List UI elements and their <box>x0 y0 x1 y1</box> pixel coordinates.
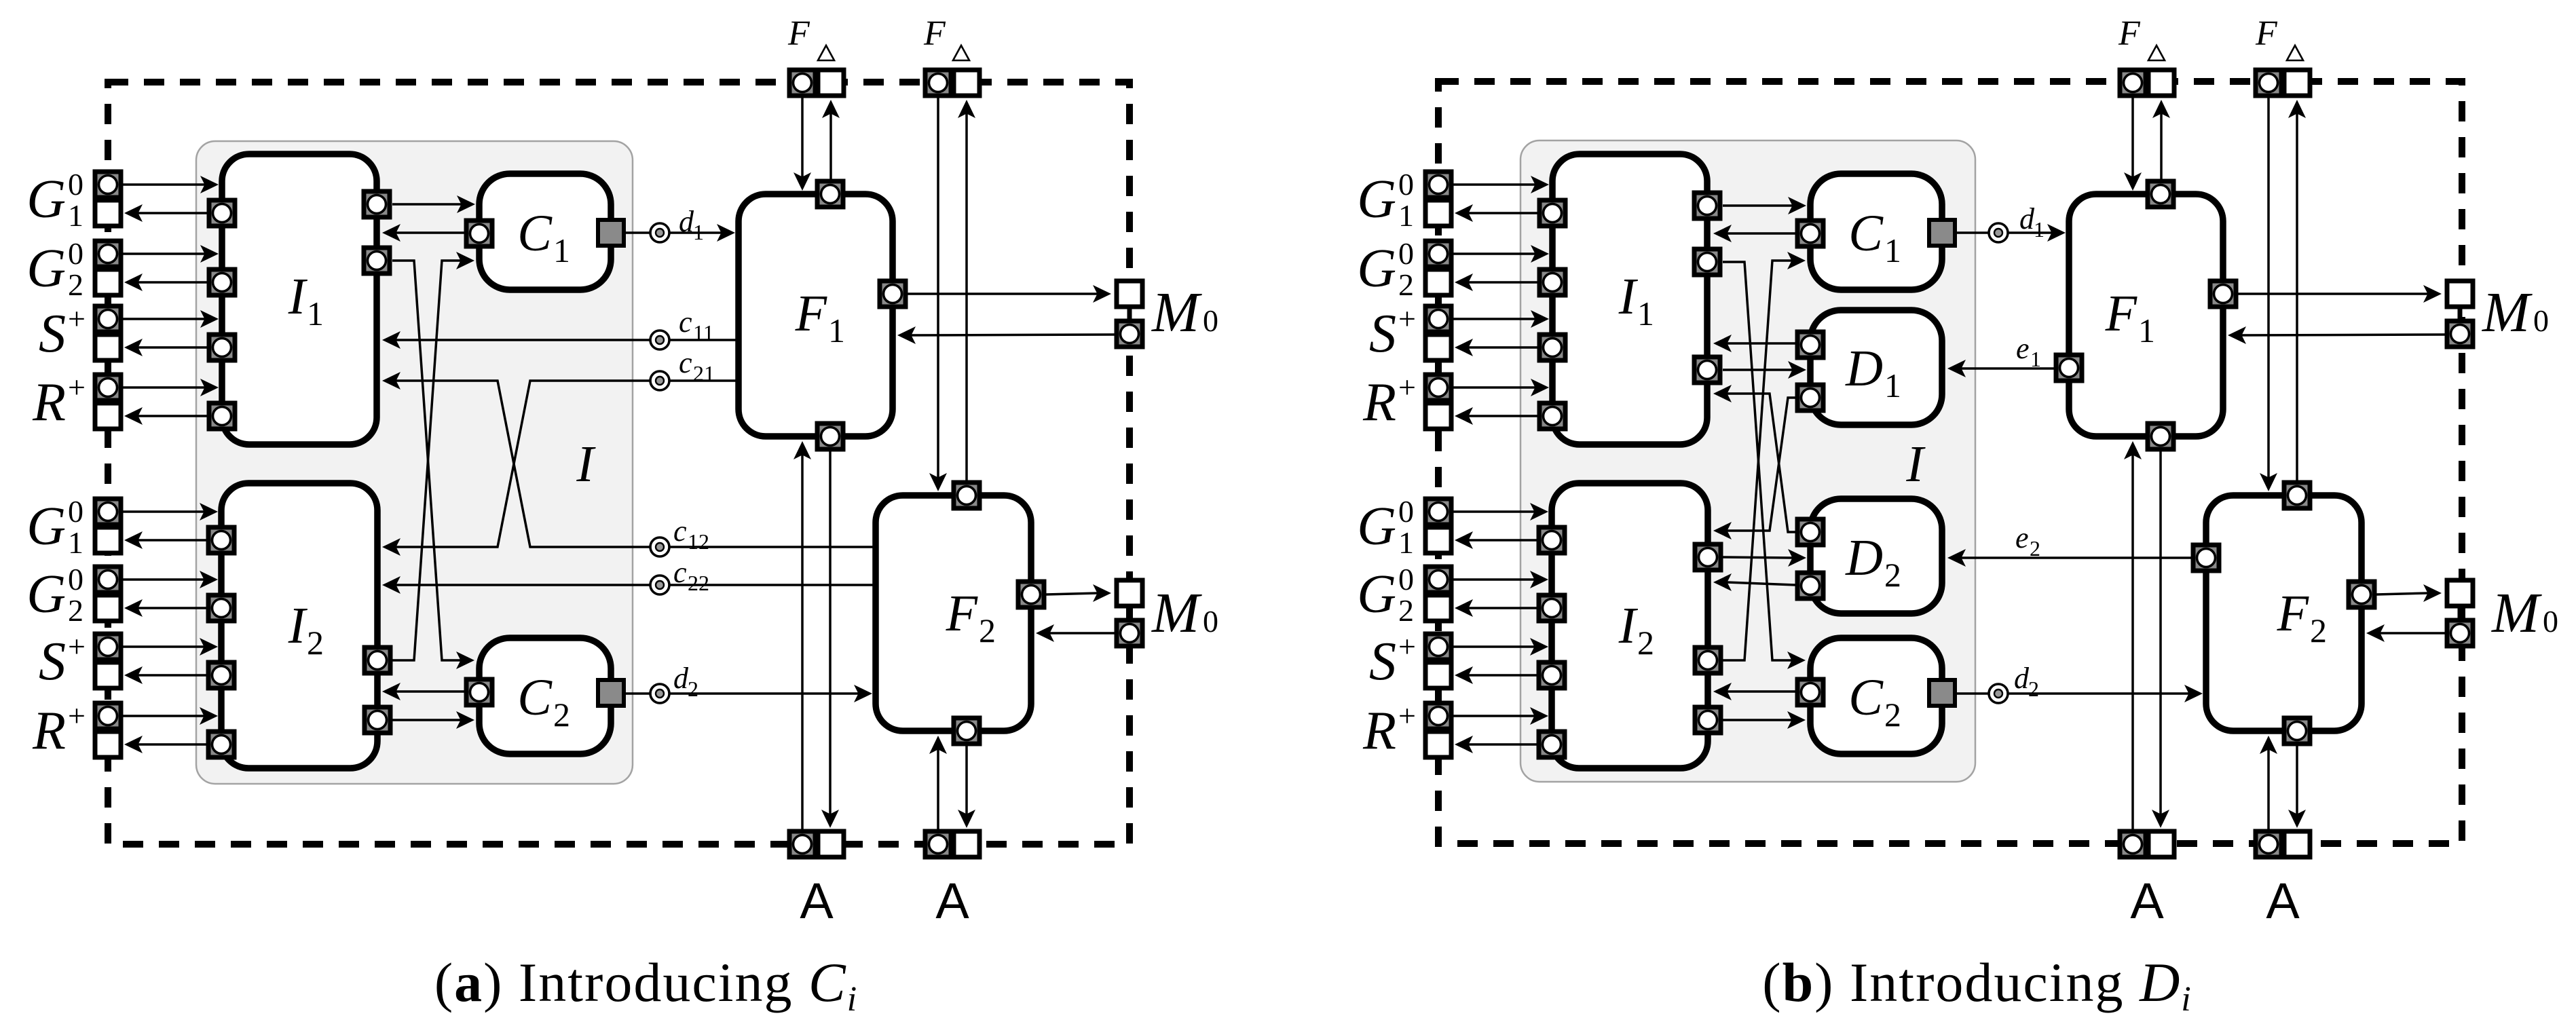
svg-text:11: 11 <box>693 320 714 345</box>
svg-text:1: 1 <box>553 231 570 269</box>
svg-text:2: 2 <box>2030 536 2040 561</box>
svg-text:F: F <box>787 14 810 53</box>
svg-text:d: d <box>2019 202 2035 235</box>
svg-text:M: M <box>2482 281 2533 344</box>
svg-text:S: S <box>1369 304 1396 364</box>
svg-text:d: d <box>679 205 694 238</box>
svg-text:2: 2 <box>1884 696 1901 734</box>
svg-text:I: I <box>288 597 308 654</box>
svg-text:1: 1 <box>828 311 845 349</box>
svg-text:R: R <box>32 701 66 761</box>
svg-text:M: M <box>1151 281 1202 344</box>
svg-text:12: 12 <box>688 529 709 554</box>
svg-text:d: d <box>673 662 689 695</box>
svg-text:2: 2 <box>979 611 996 649</box>
svg-text:I: I <box>1618 597 1639 654</box>
svg-text:1: 1 <box>2030 347 2041 371</box>
svg-text:2: 2 <box>68 593 83 628</box>
svg-text:R: R <box>32 373 66 432</box>
svg-text:1: 1 <box>68 525 83 560</box>
svg-text:I: I <box>1905 436 1926 493</box>
svg-text:F: F <box>2118 14 2141 53</box>
svg-text:F: F <box>946 585 979 642</box>
svg-text:G: G <box>1357 170 1396 229</box>
svg-text:M: M <box>2491 582 2542 645</box>
svg-text:D: D <box>1845 529 1883 586</box>
svg-text:+: + <box>1398 301 1416 336</box>
svg-text:S: S <box>39 632 66 692</box>
svg-text:D: D <box>1845 340 1883 397</box>
svg-text:0: 0 <box>68 167 83 202</box>
svg-text:F: F <box>2105 285 2138 342</box>
svg-text:I: I <box>288 268 308 325</box>
svg-text:G: G <box>1357 565 1396 624</box>
svg-text:C: C <box>1848 669 1884 726</box>
svg-text:+: + <box>68 370 86 404</box>
svg-text:(a) Introducing Ci: (a) Introducing Ci <box>434 951 858 1019</box>
svg-text:C: C <box>1848 205 1884 262</box>
svg-text:A: A <box>800 873 834 929</box>
svg-text:c: c <box>673 556 687 589</box>
svg-text:F: F <box>2255 14 2278 53</box>
svg-text:F: F <box>795 285 828 342</box>
svg-text:F: F <box>923 14 946 53</box>
svg-text:A: A <box>2266 873 2300 929</box>
svg-text:0: 0 <box>1203 604 1218 639</box>
svg-text:2: 2 <box>68 267 83 302</box>
svg-text:I: I <box>576 436 596 493</box>
svg-text:M: M <box>1151 582 1202 645</box>
svg-text:2: 2 <box>2310 611 2327 649</box>
svg-text:2: 2 <box>2028 677 2039 701</box>
svg-text:1: 1 <box>2138 311 2155 349</box>
svg-text:C: C <box>517 205 553 262</box>
svg-text:1: 1 <box>1884 366 1901 404</box>
svg-text:1: 1 <box>1398 198 1414 233</box>
svg-text:G: G <box>1357 239 1396 299</box>
svg-text:21: 21 <box>693 361 715 385</box>
svg-text:+: + <box>68 629 86 664</box>
svg-text:1: 1 <box>1637 295 1654 333</box>
svg-text:S: S <box>1369 632 1396 692</box>
svg-text:22: 22 <box>688 571 709 595</box>
svg-text:G: G <box>26 565 66 624</box>
svg-text:0: 0 <box>1398 167 1414 202</box>
svg-text:C: C <box>517 669 553 726</box>
svg-text:A: A <box>935 873 969 929</box>
svg-text:1: 1 <box>1398 525 1414 560</box>
svg-text:F: F <box>2277 585 2310 642</box>
svg-text:2: 2 <box>688 677 698 701</box>
svg-text:0: 0 <box>2533 303 2549 338</box>
svg-text:2: 2 <box>1637 624 1654 662</box>
svg-text:S: S <box>39 304 66 364</box>
svg-text:R: R <box>1362 701 1396 761</box>
svg-text:+: + <box>68 698 86 733</box>
svg-text:0: 0 <box>68 236 83 271</box>
svg-text:e: e <box>2015 521 2029 554</box>
svg-text:G: G <box>26 497 66 556</box>
svg-text:0: 0 <box>1398 236 1414 271</box>
svg-text:G: G <box>26 170 66 229</box>
svg-text:+: + <box>68 301 86 336</box>
svg-text:d: d <box>2014 662 2030 695</box>
svg-text:1: 1 <box>2034 217 2045 242</box>
svg-text:2: 2 <box>1398 593 1414 628</box>
svg-text:0: 0 <box>68 562 83 597</box>
svg-text:+: + <box>1398 698 1416 733</box>
svg-text:1: 1 <box>693 220 704 244</box>
svg-text:R: R <box>1362 373 1396 432</box>
svg-text:c: c <box>673 514 687 548</box>
svg-text:I: I <box>1618 268 1639 325</box>
svg-text:+: + <box>1398 629 1416 664</box>
svg-text:(b) Introducing Di: (b) Introducing Di <box>1762 951 2192 1019</box>
svg-text:2: 2 <box>553 696 570 734</box>
svg-text:c: c <box>679 346 692 379</box>
svg-text:1: 1 <box>307 295 324 333</box>
svg-text:0: 0 <box>68 494 83 529</box>
svg-text:2: 2 <box>1398 267 1414 302</box>
svg-text:G: G <box>1357 497 1396 556</box>
svg-text:0: 0 <box>1203 303 1218 338</box>
svg-text:0: 0 <box>1398 562 1414 597</box>
svg-text:e: e <box>2016 332 2030 365</box>
svg-text:c: c <box>679 305 692 339</box>
svg-text:0: 0 <box>2543 604 2558 639</box>
svg-text:A: A <box>2130 873 2164 929</box>
svg-text:0: 0 <box>1398 494 1414 529</box>
svg-text:1: 1 <box>1884 231 1901 269</box>
svg-text:G: G <box>26 239 66 299</box>
svg-text:2: 2 <box>1884 556 1901 594</box>
svg-text:1: 1 <box>68 198 83 233</box>
svg-text:+: + <box>1398 370 1416 404</box>
svg-text:2: 2 <box>307 624 324 662</box>
